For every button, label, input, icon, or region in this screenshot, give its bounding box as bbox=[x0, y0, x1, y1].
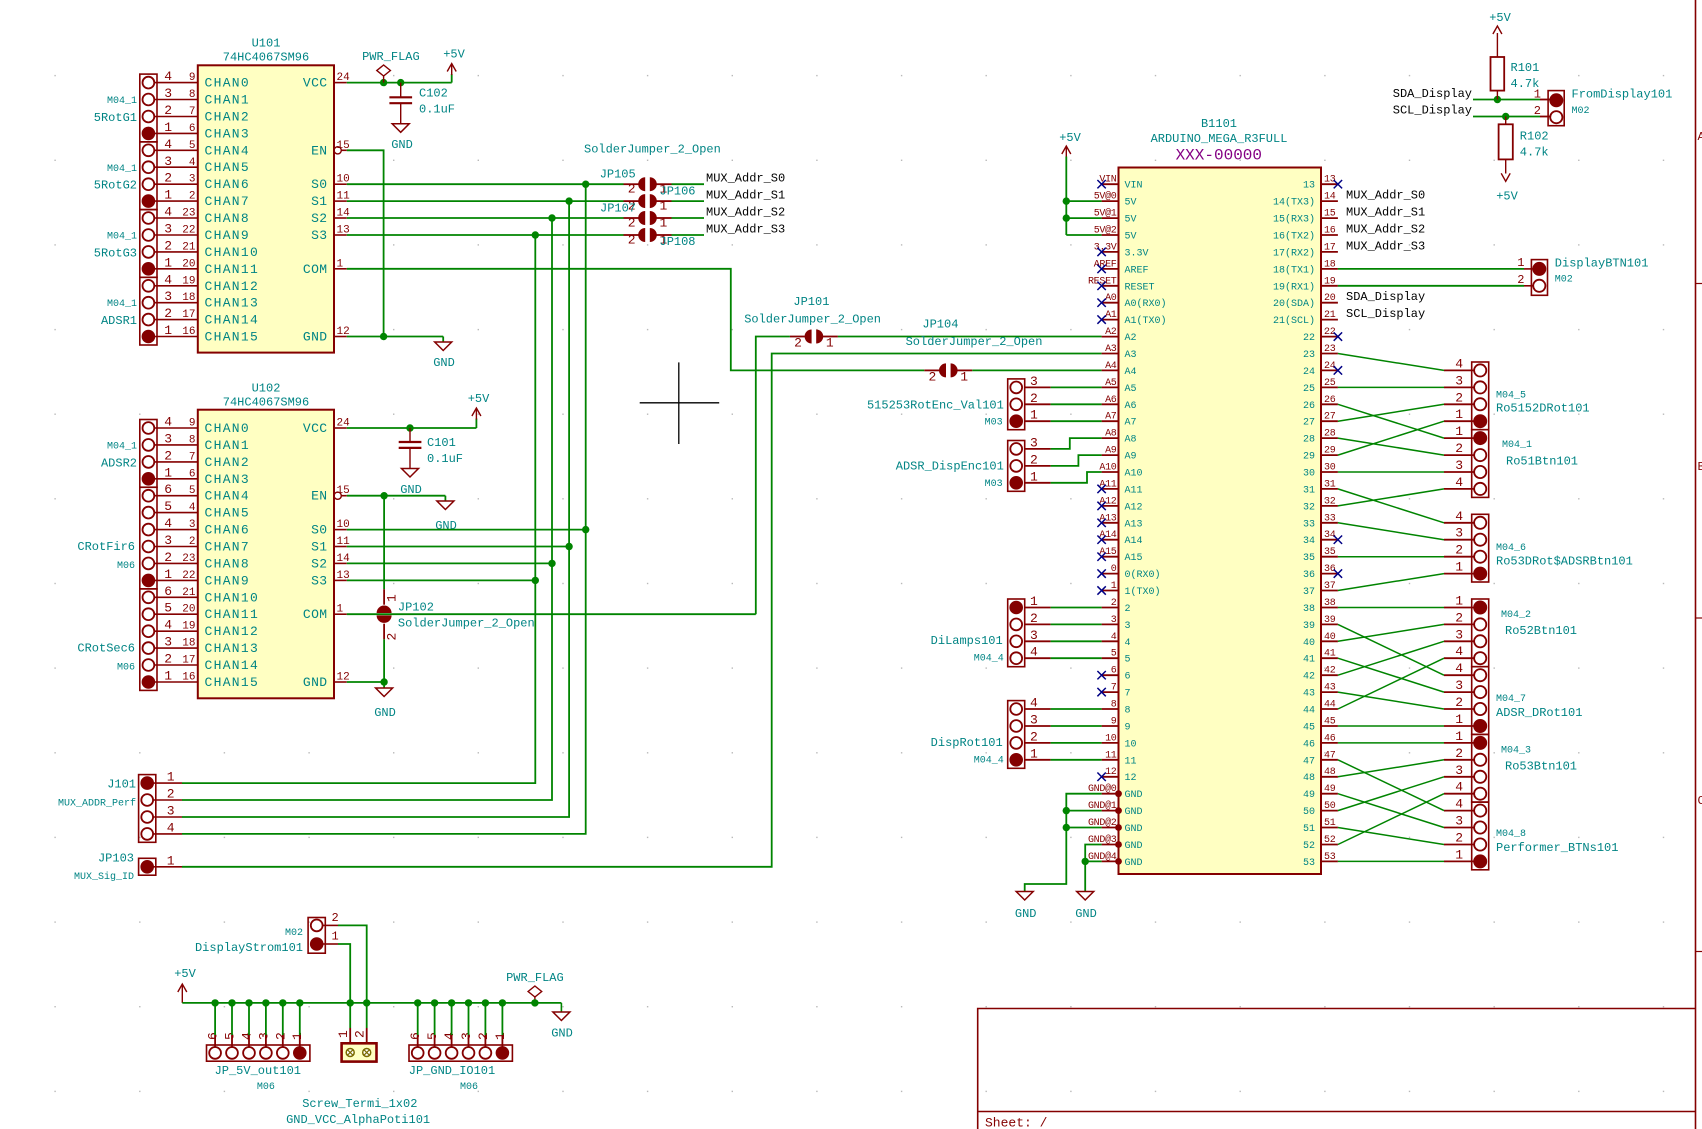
power +5V (U101) bbox=[451, 74, 453, 83]
svg-text:4: 4 bbox=[1455, 644, 1463, 659]
svg-text:M06: M06 bbox=[117, 561, 135, 572]
svg-text:34: 34 bbox=[1303, 536, 1315, 547]
svg-text:4: 4 bbox=[164, 69, 172, 84]
svg-text:DisplayStrom101: DisplayStrom101 bbox=[195, 941, 303, 955]
svg-text:5: 5 bbox=[164, 499, 172, 514]
ground B1101 right bbox=[1077, 892, 1094, 901]
svg-text:22: 22 bbox=[182, 225, 195, 237]
svg-text:48: 48 bbox=[1303, 773, 1315, 784]
svg-text:49: 49 bbox=[1324, 784, 1336, 795]
svg-text:3: 3 bbox=[164, 635, 172, 650]
svg-text:CRotSec6: CRotSec6 bbox=[77, 642, 135, 656]
svg-text:2: 2 bbox=[164, 550, 172, 565]
svg-text:Ro51Btn101: Ro51Btn101 bbox=[1506, 455, 1578, 469]
svg-text:41: 41 bbox=[1303, 655, 1315, 666]
svg-text:CHAN2: CHAN2 bbox=[205, 110, 251, 125]
svg-text:CHAN0: CHAN0 bbox=[205, 421, 251, 436]
svg-text:M04_1: M04_1 bbox=[107, 164, 137, 175]
svg-text:6: 6 bbox=[1125, 672, 1131, 683]
svg-text:4: 4 bbox=[1455, 475, 1463, 490]
svg-text:1: 1 bbox=[164, 120, 172, 135]
svg-text:CHAN15: CHAN15 bbox=[205, 675, 260, 690]
svg-text:CHAN15: CHAN15 bbox=[205, 330, 260, 345]
svg-text:JP_5V_out101: JP_5V_out101 bbox=[215, 1064, 301, 1078]
svg-text:CHAN9: CHAN9 bbox=[205, 228, 251, 243]
connector ADSR1 (M04_1) bbox=[140, 277, 157, 345]
svg-text:28: 28 bbox=[1324, 429, 1336, 440]
svg-text:1: 1 bbox=[660, 199, 668, 214]
svg-text:VCC: VCC bbox=[303, 76, 328, 91]
junction VCC/PWR_FLAG bbox=[380, 79, 387, 86]
svg-text:ADSR_DRot101: ADSR_DRot101 bbox=[1496, 706, 1582, 720]
svg-text:2: 2 bbox=[273, 1032, 288, 1040]
svg-text:CHAN1: CHAN1 bbox=[205, 93, 251, 108]
svg-text:VCC: VCC bbox=[303, 421, 328, 436]
svg-text:GND: GND bbox=[1125, 807, 1143, 818]
svg-text:2: 2 bbox=[1517, 273, 1524, 287]
svg-text:4: 4 bbox=[1455, 661, 1463, 676]
svg-text:21(SCL): 21(SCL) bbox=[1273, 315, 1315, 327]
svg-text:48: 48 bbox=[1324, 767, 1336, 778]
svg-text:M02: M02 bbox=[1555, 275, 1573, 286]
svg-text:4: 4 bbox=[1455, 780, 1463, 795]
svg-text:GND: GND bbox=[303, 330, 328, 345]
wire DispRot pin4 bbox=[1025, 708, 1051, 710]
junction U102 GND bbox=[380, 678, 387, 685]
svg-text:5: 5 bbox=[164, 601, 172, 616]
wire U101 S3 to JP108 bbox=[347, 234, 624, 236]
svg-text:4: 4 bbox=[240, 1032, 255, 1040]
svg-text:GND: GND bbox=[1125, 841, 1143, 852]
svg-text:+5V: +5V bbox=[1489, 11, 1511, 25]
svg-text:2: 2 bbox=[1125, 604, 1131, 615]
svg-text:GND: GND bbox=[435, 519, 457, 533]
wire U102 GND pin bbox=[347, 681, 384, 683]
svg-text:6: 6 bbox=[164, 482, 172, 497]
svg-text:74HC4067SM96: 74HC4067SM96 bbox=[223, 396, 309, 410]
svg-text:1: 1 bbox=[1455, 729, 1463, 744]
svg-text:1: 1 bbox=[1517, 256, 1524, 270]
svg-text:M04_1: M04_1 bbox=[107, 299, 137, 310]
svg-text:A10: A10 bbox=[1099, 463, 1116, 474]
svg-text:CHAN7: CHAN7 bbox=[205, 194, 251, 209]
svg-text:9: 9 bbox=[189, 72, 196, 84]
junction rail screw1 bbox=[347, 999, 354, 1006]
wire JP102 vertical bbox=[383, 496, 385, 590]
svg-text:52: 52 bbox=[1324, 835, 1336, 846]
wire U102 COM to JP101/A2 bbox=[756, 337, 790, 615]
connector JP103 MUX_Sig_ID bbox=[139, 858, 156, 875]
svg-text:A2: A2 bbox=[1125, 333, 1137, 344]
svg-text:CRotFir6: CRotFir6 bbox=[77, 540, 135, 554]
svg-text:4: 4 bbox=[1125, 638, 1131, 649]
svg-text:20: 20 bbox=[182, 604, 195, 616]
svg-text:S2: S2 bbox=[311, 211, 327, 226]
svg-text:SCL_Display: SCL_Display bbox=[1393, 104, 1472, 118]
svg-text:13: 13 bbox=[1303, 181, 1315, 192]
svg-text:47: 47 bbox=[1324, 750, 1336, 761]
wire 19(RX1) to DisplayBTN bbox=[1338, 285, 1524, 287]
svg-text:41: 41 bbox=[1324, 649, 1336, 660]
capacitor C101 0.1uF bbox=[409, 428, 411, 441]
ground B1101 left bbox=[1016, 892, 1033, 901]
junction SCL/R102 bbox=[1502, 113, 1509, 120]
svg-text:M04_1: M04_1 bbox=[107, 441, 137, 452]
svg-text:A9: A9 bbox=[1125, 452, 1137, 463]
svg-text:3: 3 bbox=[1455, 526, 1463, 541]
wire GND@2 bbox=[1066, 827, 1101, 829]
svg-text:2: 2 bbox=[1455, 441, 1463, 456]
svg-text:3.3V: 3.3V bbox=[1125, 248, 1149, 259]
svg-text:4: 4 bbox=[1111, 632, 1117, 643]
svg-text:B: B bbox=[1698, 460, 1702, 474]
svg-text:SolderJumper_2_Open: SolderJumper_2_Open bbox=[584, 143, 721, 157]
wire J101 pin3 stub bbox=[153, 816, 182, 818]
svg-text:U102: U102 bbox=[252, 382, 281, 396]
svg-text:M04_6: M04_6 bbox=[1496, 543, 1526, 554]
svg-text:M02: M02 bbox=[285, 928, 303, 939]
svg-text:MUX_ADDR_Perf: MUX_ADDR_Perf bbox=[58, 798, 136, 810]
svg-text:CHAN3: CHAN3 bbox=[205, 472, 251, 487]
U101 pins CHAN0-CHAN15 bbox=[154, 82, 198, 84]
wire DispRot pin3 bbox=[1025, 725, 1051, 727]
svg-text:A: A bbox=[1698, 130, 1702, 144]
svg-text:S3: S3 bbox=[311, 573, 327, 588]
svg-text:3: 3 bbox=[1125, 621, 1131, 632]
svg-text:15(RX3): 15(RX3) bbox=[1273, 214, 1315, 226]
svg-text:J101: J101 bbox=[107, 778, 136, 792]
svg-text:1: 1 bbox=[164, 567, 172, 582]
svg-text:52: 52 bbox=[1303, 841, 1315, 852]
svg-text:JP101: JP101 bbox=[793, 295, 829, 309]
connector Ro5152DRot101 (M04_5) bbox=[1472, 362, 1489, 430]
junction S0 bus bbox=[582, 181, 589, 188]
svg-text:CHAN13: CHAN13 bbox=[205, 641, 260, 656]
svg-text:46: 46 bbox=[1324, 733, 1336, 744]
svg-text:25: 25 bbox=[1303, 384, 1315, 395]
svg-text:21: 21 bbox=[182, 587, 196, 599]
svg-text:SDA_Display: SDA_Display bbox=[1346, 290, 1425, 304]
svg-text:2: 2 bbox=[628, 216, 636, 231]
svg-text:A3: A3 bbox=[1125, 350, 1137, 361]
op-amp U102 74HC4067SM96 body bbox=[198, 410, 334, 699]
svg-text:5: 5 bbox=[223, 1032, 238, 1040]
svg-text:2: 2 bbox=[1455, 610, 1463, 625]
connector Ro53Btn101 (M04_3) bbox=[1472, 734, 1489, 802]
svg-text:3: 3 bbox=[1455, 627, 1463, 642]
svg-text:MUX_Addr_S3: MUX_Addr_S3 bbox=[1346, 239, 1425, 253]
wire JP108 to net label bbox=[672, 234, 705, 236]
wires JP_GND_IO101 to rail bbox=[417, 1003, 419, 1035]
ground below C101 bbox=[402, 469, 419, 478]
svg-text:1: 1 bbox=[660, 216, 668, 231]
svg-text:MUX_Addr_S0: MUX_Addr_S0 bbox=[1346, 189, 1425, 203]
junction 5V@0 bbox=[1063, 197, 1070, 204]
svg-text:26: 26 bbox=[1303, 401, 1315, 412]
junction VCC/C101 bbox=[406, 424, 413, 431]
svg-text:2: 2 bbox=[385, 633, 400, 641]
svg-text:3: 3 bbox=[164, 86, 172, 101]
svg-text:A1: A1 bbox=[1105, 310, 1117, 321]
wire JP107 to net label bbox=[672, 217, 705, 219]
wire DispEnc pin2 to A9 bbox=[1025, 465, 1051, 467]
svg-text:M06: M06 bbox=[117, 663, 135, 674]
svg-text:4: 4 bbox=[164, 415, 172, 430]
svg-text:CHAN9: CHAN9 bbox=[205, 573, 251, 588]
svg-text:CHAN5: CHAN5 bbox=[205, 506, 251, 521]
svg-text:A6: A6 bbox=[1125, 401, 1137, 412]
wire U101 GND pin bbox=[347, 336, 443, 338]
svg-text:A13: A13 bbox=[1125, 519, 1143, 530]
svg-text:23: 23 bbox=[182, 553, 195, 565]
svg-text:45: 45 bbox=[1303, 723, 1315, 734]
wire DispRot pin1 bbox=[1025, 759, 1051, 761]
svg-text:M04_1: M04_1 bbox=[107, 96, 137, 107]
svg-text:23: 23 bbox=[1324, 344, 1336, 355]
svg-text:M06: M06 bbox=[460, 1082, 478, 1093]
svg-text:10: 10 bbox=[1125, 739, 1137, 750]
svg-text:SCL_Display: SCL_Display bbox=[1346, 307, 1425, 321]
svg-text:M03: M03 bbox=[985, 418, 1003, 429]
sheet frame right border bbox=[1695, 0, 1697, 1129]
connector DisplayStrom101 (M02) bbox=[308, 918, 325, 954]
svg-text:30: 30 bbox=[1303, 469, 1315, 480]
svg-text:16: 16 bbox=[182, 672, 195, 684]
svg-text:8: 8 bbox=[1111, 700, 1117, 711]
svg-text:31: 31 bbox=[1303, 485, 1315, 496]
wire MUX bus S2 vertical bbox=[182, 218, 552, 800]
op-amp U101 74HC4067SM96 body bbox=[198, 65, 334, 352]
svg-text:CHAN12: CHAN12 bbox=[205, 279, 260, 294]
wire U102 EN to GND/JP102 bbox=[347, 495, 446, 497]
svg-text:19: 19 bbox=[1324, 276, 1336, 287]
svg-text:38: 38 bbox=[1303, 604, 1315, 615]
svg-text:PWR_FLAG: PWR_FLAG bbox=[506, 971, 564, 985]
svg-text:30: 30 bbox=[1324, 463, 1336, 474]
svg-text:5V: 5V bbox=[1125, 198, 1137, 209]
power +5V (B1101) bbox=[1062, 146, 1071, 154]
wire SCL_Display bbox=[1473, 116, 1540, 118]
svg-text:5: 5 bbox=[1125, 655, 1131, 666]
svg-text:C102: C102 bbox=[419, 87, 448, 101]
svg-text:23: 23 bbox=[1303, 350, 1315, 361]
svg-text:M04_4: M04_4 bbox=[974, 654, 1004, 665]
svg-text:PWR_FLAG: PWR_FLAG bbox=[362, 50, 420, 64]
svg-text:6: 6 bbox=[408, 1032, 423, 1040]
svg-text:31: 31 bbox=[1324, 479, 1336, 490]
svg-text:S0: S0 bbox=[311, 177, 327, 192]
svg-text:1: 1 bbox=[337, 258, 344, 270]
connector ADSR2 (M04_1) bbox=[140, 420, 157, 488]
svg-text:14(TX3): 14(TX3) bbox=[1273, 197, 1315, 209]
svg-text:1: 1 bbox=[1455, 712, 1463, 727]
wire DisplayStrom pin2 to rail bbox=[338, 925, 367, 1003]
svg-text:45: 45 bbox=[1324, 717, 1336, 728]
svg-text:18(TX1): 18(TX1) bbox=[1273, 264, 1315, 276]
svg-text:CHAN6: CHAN6 bbox=[205, 177, 251, 192]
wire JP104 to A4 bbox=[972, 369, 1101, 371]
solder jumper JP105 bbox=[624, 183, 639, 185]
svg-text:MUX_Addr_S2: MUX_Addr_S2 bbox=[706, 206, 785, 220]
svg-text:CHAN5: CHAN5 bbox=[205, 160, 251, 175]
ground at U102 GND bbox=[383, 682, 385, 688]
svg-text:M04_3: M04_3 bbox=[1501, 746, 1531, 757]
svg-text:CHAN6: CHAN6 bbox=[205, 523, 251, 538]
svg-text:39: 39 bbox=[1303, 621, 1315, 632]
svg-text:29: 29 bbox=[1303, 452, 1315, 463]
svg-text:49: 49 bbox=[1303, 790, 1315, 801]
svg-text:17: 17 bbox=[1324, 242, 1336, 253]
svg-text:20: 20 bbox=[1324, 293, 1336, 304]
solder jumper JP106 bbox=[624, 200, 639, 202]
svg-text:17(RX2): 17(RX2) bbox=[1273, 247, 1315, 259]
svg-text:19: 19 bbox=[182, 621, 195, 633]
wire GND@1 bbox=[1066, 810, 1101, 812]
svg-text:M04_2: M04_2 bbox=[1501, 610, 1531, 621]
svg-text:2: 2 bbox=[1455, 695, 1463, 710]
svg-text:C: C bbox=[1698, 794, 1702, 808]
svg-text:3: 3 bbox=[256, 1032, 271, 1040]
svg-text:GND: GND bbox=[1075, 907, 1097, 921]
svg-text:7: 7 bbox=[189, 106, 196, 118]
svg-text:5RotG2: 5RotG2 bbox=[94, 179, 137, 193]
svg-text:44: 44 bbox=[1303, 706, 1315, 717]
svg-text:16(TX2): 16(TX2) bbox=[1273, 231, 1315, 243]
svg-text:COM: COM bbox=[303, 262, 328, 277]
svg-text:CHAN4: CHAN4 bbox=[205, 489, 251, 504]
svg-text:GND: GND bbox=[1125, 824, 1143, 835]
svg-text:EN: EN bbox=[311, 143, 327, 158]
svg-text:A3: A3 bbox=[1105, 344, 1117, 355]
B1101 left pins bbox=[1102, 183, 1119, 185]
svg-text:RESET: RESET bbox=[1125, 282, 1155, 293]
svg-text:2: 2 bbox=[164, 306, 172, 321]
svg-text:22: 22 bbox=[182, 570, 195, 582]
svg-text:4.7k: 4.7k bbox=[1520, 146, 1549, 160]
svg-text:1: 1 bbox=[1111, 581, 1117, 592]
connector 515253RotEnc_Val101 (M03) bbox=[1008, 379, 1025, 430]
connector DisplayBTN101 (M02) bbox=[1531, 260, 1547, 296]
svg-text:GND: GND bbox=[1125, 790, 1143, 801]
solder jumper JP104 bbox=[924, 369, 939, 371]
svg-text:CHAN0: CHAN0 bbox=[205, 76, 251, 91]
svg-text:A0: A0 bbox=[1105, 293, 1117, 304]
svg-text:5V: 5V bbox=[1125, 232, 1137, 243]
svg-text:A2: A2 bbox=[1105, 327, 1117, 338]
svg-text:6: 6 bbox=[206, 1032, 221, 1040]
svg-text:A11: A11 bbox=[1125, 485, 1143, 496]
wire U101 COM to JP104/A4 bbox=[347, 269, 925, 371]
svg-text:42: 42 bbox=[1303, 672, 1315, 683]
junction S3 bus bbox=[532, 231, 539, 238]
svg-text:37: 37 bbox=[1324, 581, 1336, 592]
svg-text:A9: A9 bbox=[1105, 446, 1117, 457]
svg-text:DispRot101: DispRot101 bbox=[931, 736, 1003, 750]
svg-text:A8: A8 bbox=[1125, 435, 1137, 446]
svg-text:3: 3 bbox=[189, 519, 196, 531]
svg-text:+5V: +5V bbox=[443, 48, 465, 62]
svg-text:JP106: JP106 bbox=[660, 185, 696, 199]
wire DiLamps pin1 bbox=[1025, 607, 1051, 609]
wire 5V@0 bbox=[1066, 200, 1101, 202]
svg-text:5V: 5V bbox=[1125, 215, 1137, 226]
svg-text:37: 37 bbox=[1303, 587, 1315, 598]
svg-text:32: 32 bbox=[1324, 496, 1336, 507]
svg-text:3: 3 bbox=[164, 222, 172, 237]
svg-text:Screw_Termi_1x02: Screw_Termi_1x02 bbox=[302, 1097, 417, 1111]
connector Ro51Btn101 (M04_1) bbox=[1472, 430, 1489, 498]
svg-text:43: 43 bbox=[1324, 683, 1336, 694]
svg-text:CHAN13: CHAN13 bbox=[205, 296, 260, 311]
crosshair marker bbox=[640, 402, 720, 404]
svg-text:GND: GND bbox=[1125, 858, 1143, 869]
svg-text:1: 1 bbox=[960, 369, 968, 384]
svg-text:0: 0 bbox=[1111, 564, 1117, 575]
svg-text:GND: GND bbox=[391, 138, 413, 152]
svg-text:5: 5 bbox=[1111, 649, 1117, 660]
wire DiLamps pin3 bbox=[1025, 640, 1051, 642]
svg-text:1: 1 bbox=[337, 604, 344, 616]
svg-text:CHAN8: CHAN8 bbox=[205, 556, 251, 571]
svg-text:S2: S2 bbox=[311, 556, 327, 571]
junction PWR_FLAG rail bbox=[531, 999, 538, 1006]
svg-text:JP107: JP107 bbox=[600, 201, 636, 215]
svg-text:40: 40 bbox=[1324, 632, 1336, 643]
svg-text:1: 1 bbox=[1455, 594, 1463, 609]
svg-text:51: 51 bbox=[1303, 824, 1315, 835]
svg-text:S3: S3 bbox=[311, 228, 327, 243]
svg-text:21: 21 bbox=[182, 241, 196, 253]
svg-text:3: 3 bbox=[189, 174, 196, 186]
screw terminal GND_VCC_AlphaPoti101 bbox=[342, 1043, 377, 1061]
svg-text:33: 33 bbox=[1324, 513, 1336, 524]
svg-text:GND: GND bbox=[374, 706, 396, 720]
svg-text:CHAN8: CHAN8 bbox=[205, 211, 251, 226]
svg-text:R101: R101 bbox=[1511, 61, 1540, 75]
svg-text:4: 4 bbox=[189, 502, 196, 514]
wire screw terminal pin1 bbox=[349, 1003, 351, 1028]
resistor R102 4.7k bbox=[1505, 117, 1507, 125]
svg-text:B1101: B1101 bbox=[1201, 117, 1237, 131]
connector Ro52Btn101 (M04_2) bbox=[1472, 599, 1489, 667]
svg-text:6: 6 bbox=[189, 468, 196, 480]
svg-text:46: 46 bbox=[1303, 739, 1315, 750]
svg-text:40: 40 bbox=[1303, 638, 1315, 649]
svg-text:25: 25 bbox=[1324, 378, 1336, 389]
svg-text:CHAN12: CHAN12 bbox=[205, 624, 260, 639]
svg-text:M04_4: M04_4 bbox=[974, 756, 1004, 767]
svg-text:53: 53 bbox=[1324, 852, 1336, 863]
svg-text:A10: A10 bbox=[1125, 469, 1143, 480]
svg-text:9: 9 bbox=[1125, 723, 1131, 734]
svg-text:3: 3 bbox=[164, 533, 172, 548]
svg-text:7: 7 bbox=[1125, 689, 1131, 700]
svg-text:5: 5 bbox=[189, 485, 196, 497]
connector DiLamps101 (M04_4) bbox=[1008, 599, 1025, 667]
svg-text:4: 4 bbox=[1455, 356, 1463, 371]
junction rail screw2 bbox=[363, 999, 370, 1006]
power flag PWR_FLAG (rail) bbox=[534, 997, 536, 1003]
wire U102 S3 to bus bbox=[347, 579, 536, 581]
svg-text:JP104: JP104 bbox=[922, 318, 958, 332]
svg-text:SolderJumper_2_Open: SolderJumper_2_Open bbox=[906, 335, 1043, 349]
svg-text:Sheet: /: Sheet: / bbox=[985, 1116, 1048, 1129]
svg-text:0.1uF: 0.1uF bbox=[419, 103, 455, 117]
power +5V below R102 bbox=[1501, 173, 1510, 181]
wire U101 EN to GND bbox=[347, 150, 384, 336]
junction GND@4 bbox=[1082, 858, 1089, 865]
U102 pins CHAN0-CHAN15 bbox=[154, 427, 198, 429]
